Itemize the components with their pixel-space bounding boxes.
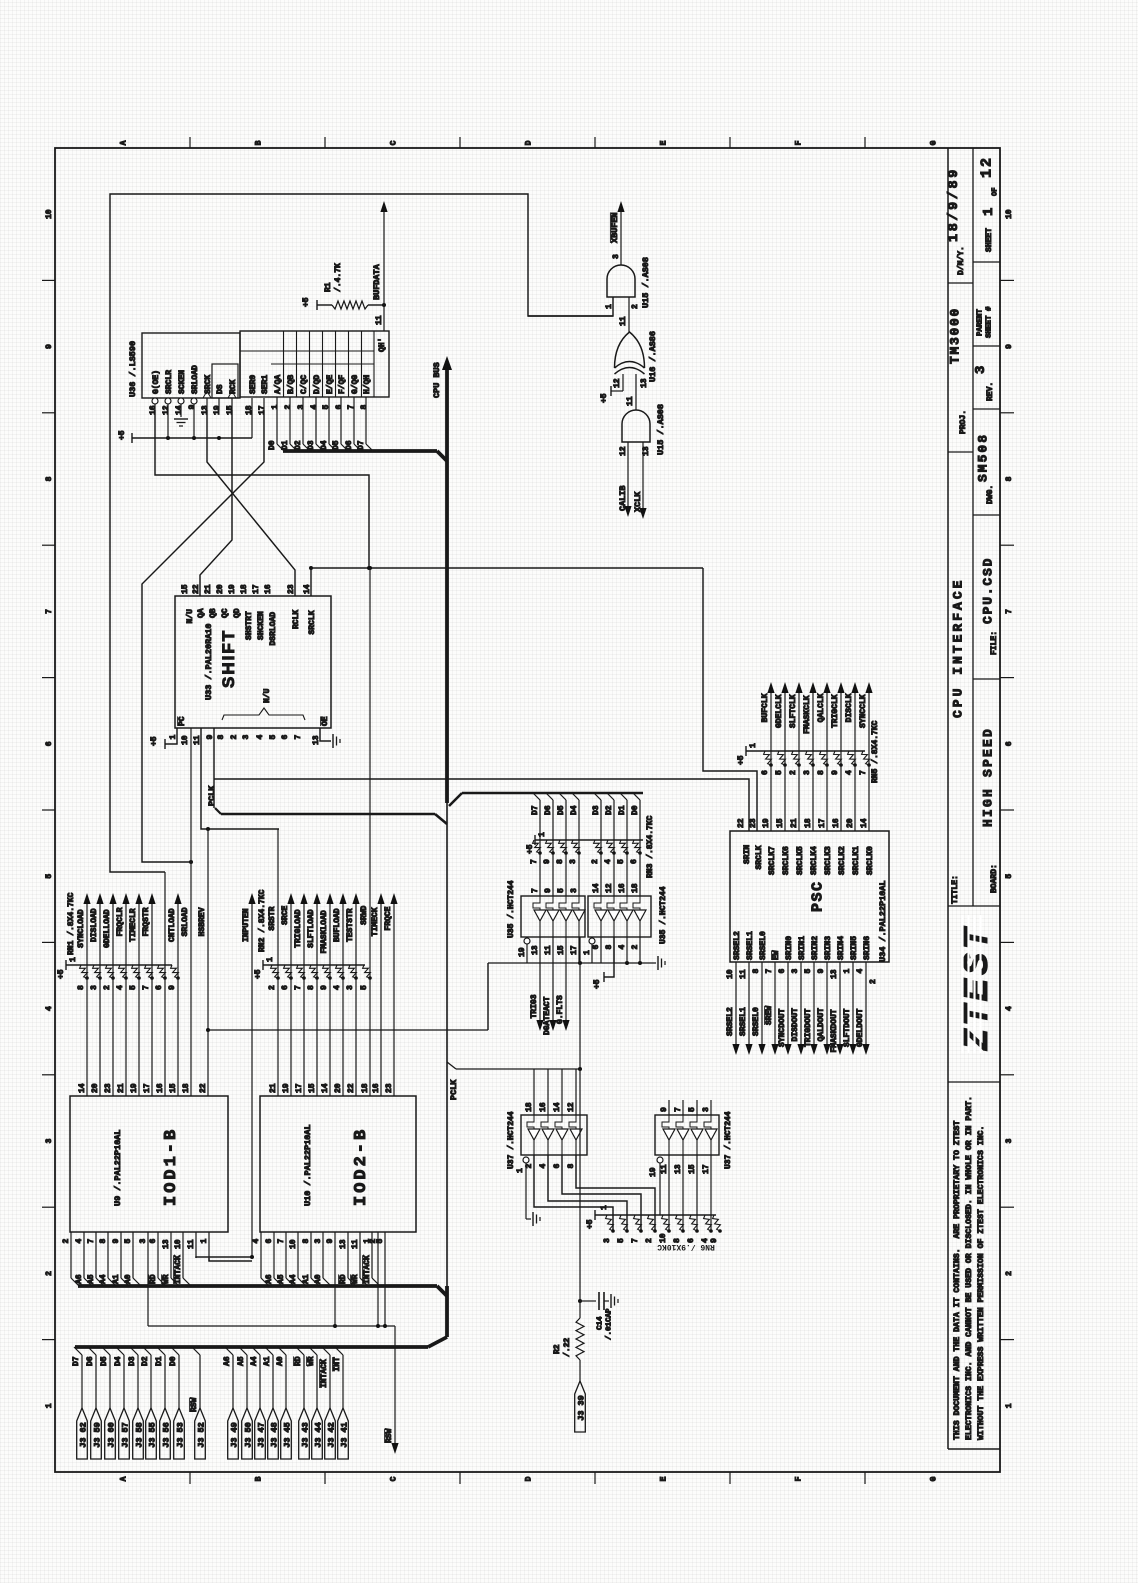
svg-text:SRIN0: SRIN0	[785, 936, 794, 960]
op: AND gate U15b /.AS08	[622, 410, 650, 442]
RN3 squiggles	[533, 840, 642, 855]
svg-text:18: 18	[631, 883, 640, 893]
bus CPU BUS spine	[445, 461, 449, 1337]
svg-text:A0: A0	[314, 1274, 323, 1284]
IC U35 /.HCT244 bank B	[588, 896, 651, 937]
resnet RN1 /.8X4.7KC rail	[57, 957, 172, 979]
svg-text:16: 16	[372, 1083, 381, 1093]
svg-text:D4: D4	[320, 440, 329, 450]
svg-text:RD: RD	[294, 1356, 303, 1366]
svg-text:INPUTEN: INPUTEN	[242, 908, 251, 942]
wire U36 pin stubs	[155, 398, 264, 410]
svg-text:DISCLK: DISCLK	[845, 693, 854, 722]
IOD1-B refdes	[113, 1129, 123, 1206]
svg-text:SHEET #: SHEET #	[986, 306, 994, 338]
border frame	[55, 148, 1000, 1472]
IOD1-B top pin numbers	[78, 1083, 208, 1093]
svg-text:J3 53: J3 53	[176, 1422, 186, 1448]
svg-text:20: 20	[91, 1083, 100, 1093]
svg-text:A5: A5	[87, 1274, 96, 1284]
title cell date	[947, 167, 966, 275]
svg-text:N/U: N/U	[186, 609, 195, 624]
svg-text:8: 8	[567, 1164, 576, 1169]
wire RCK to SHIFT QA	[200, 410, 232, 596]
svg-text:SRIN5: SRIN5	[850, 936, 859, 960]
svg-text:A6: A6	[223, 1356, 232, 1366]
svg-text:SYNCLOAD: SYNCLOAD	[77, 909, 86, 948]
svg-text:A: A	[119, 1476, 128, 1481]
svg-text:E/QE: E/QE	[326, 375, 335, 394]
svg-text:20: 20	[334, 1083, 343, 1093]
svg-text:14: 14	[860, 818, 869, 828]
svg-text:J3 43: J3 43	[301, 1422, 311, 1448]
net arrows PSC outputs	[732, 1044, 869, 1055]
svg-text:18: 18	[361, 1083, 370, 1093]
svg-text:D2: D2	[294, 440, 303, 450]
svg-text:3: 3	[569, 859, 578, 864]
svg-text:1: 1	[69, 957, 78, 962]
RN5 label	[871, 720, 880, 783]
svg-text:RN1 /.8X4.7KC: RN1 /.8X4.7KC	[67, 892, 76, 955]
svg-text:HIGH SPEED: HIGH SPEED	[981, 727, 996, 827]
svg-text:WITHOUT THE EXPRESS WRITTEN PE: WITHOUT THE EXPRESS WRITTEN PERMISSION O…	[977, 1126, 986, 1440]
connector J3 58 (D3)	[128, 1347, 145, 1459]
svg-text:22: 22	[199, 1083, 208, 1093]
svg-text:10: 10	[659, 1233, 668, 1243]
svg-text:5: 5	[804, 969, 813, 974]
wires IOD1 control signals	[87, 872, 178, 1096]
net arrow XCLK	[633, 442, 647, 519]
IC U34 PSC /.PAL22P10AL	[730, 831, 889, 962]
wire PCLK horizontal to SRIN	[214, 779, 749, 831]
svg-text:10: 10	[45, 209, 54, 219]
net arrow CALIB	[618, 442, 632, 517]
net arrow TRIG3	[530, 963, 544, 1031]
svg-text:J3 41: J3 41	[340, 1422, 350, 1448]
svg-text:6: 6	[281, 735, 290, 740]
wire IOD2 pins to RSW	[376, 1258, 387, 1328]
svg-text:6: 6	[592, 945, 601, 950]
op: XOR gate U16 /.AS86	[615, 332, 645, 374]
svg-text:6: 6	[778, 969, 787, 974]
svg-text:PSC: PSC	[809, 880, 826, 912]
U37 B output pin numbers	[660, 1164, 711, 1174]
RN3 label	[646, 815, 655, 878]
svg-text:QB: QB	[209, 608, 218, 618]
wire R1 to QH pin 11	[368, 303, 386, 331]
svg-text:INT: INT	[333, 1357, 342, 1372]
svg-text:U15 /.AS08: U15 /.AS08	[641, 257, 651, 308]
svg-text:13: 13	[162, 1239, 171, 1249]
svg-text:SRCLK3: SRCLK3	[824, 846, 833, 875]
svg-text:15: 15	[776, 818, 785, 828]
svg-text:D4: D4	[570, 805, 579, 815]
svg-text:U37 /.HCT244: U37 /.HCT244	[724, 1111, 733, 1169]
svg-text:U16 /.AS86: U16 /.AS86	[648, 331, 658, 382]
svg-text:9: 9	[817, 969, 826, 974]
svg-text:1: 1	[271, 405, 280, 410]
RN5 pin numbers	[761, 770, 868, 775]
svg-text:12: 12	[613, 378, 622, 388]
svg-text:CALIB: CALIB	[618, 485, 628, 511]
svg-text:6: 6	[45, 741, 54, 746]
svg-text:U36 /.LS590: U36 /.LS590	[128, 341, 138, 397]
svg-text:19: 19	[130, 1083, 139, 1093]
svg-text:23: 23	[385, 1083, 394, 1093]
svg-text:GDELDOUT: GDELDOUT	[856, 1008, 865, 1047]
svg-text:D7: D7	[357, 440, 366, 450]
svg-text:15: 15	[557, 945, 566, 955]
wire RCLK net	[311, 566, 757, 831]
IC U10 IOD2-B	[260, 1096, 416, 1232]
svg-text:19: 19	[282, 1083, 291, 1093]
svg-text:H/QH: H/QH	[363, 375, 372, 394]
svg-text:C14: C14	[597, 1316, 605, 1330]
svg-text:WR: WR	[307, 1356, 316, 1366]
resnet RN3 /.8X4.7KC rail	[526, 832, 643, 854]
U37 A input pin numbers	[525, 1102, 576, 1112]
svg-text:17: 17	[252, 584, 261, 594]
svg-text:+5: +5	[150, 736, 159, 746]
svg-text:U9 /.PAL22P10AL: U9 /.PAL22P10AL	[113, 1129, 123, 1206]
svg-text:13: 13	[674, 1164, 683, 1174]
svg-text:17: 17	[702, 1164, 711, 1174]
svg-text:FMASKCLK: FMASKCLK	[803, 695, 812, 734]
svg-text:14: 14	[592, 883, 601, 893]
title block grid	[948, 148, 1000, 1449]
svg-text:C: C	[389, 1476, 398, 1481]
node SRCLK junction	[309, 566, 313, 570]
svg-text:+5: +5	[526, 844, 535, 854]
svg-text:16: 16	[832, 818, 841, 828]
svg-text:8: 8	[360, 405, 369, 410]
svg-text:J3 57: J3 57	[121, 1422, 131, 1448]
svg-text:PCLK: PCLK	[207, 785, 217, 806]
svg-text:SRIN2: SRIN2	[811, 936, 820, 960]
svg-text:12: 12	[567, 1102, 576, 1112]
svg-text:4: 4	[45, 1006, 54, 1011]
svg-text:11: 11	[351, 1239, 360, 1249]
svg-text:15: 15	[181, 584, 190, 594]
svg-text:U33 /.PAL20RA10: U33 /.PAL20RA10	[204, 623, 214, 700]
svg-text:SRSTR: SRSTR	[268, 906, 277, 930]
wires IOD outputs to bus	[71, 1258, 380, 1286]
svg-text:D2: D2	[605, 805, 614, 815]
svg-text:10: 10	[289, 1239, 298, 1249]
U35 bank A OE bubble	[518, 938, 530, 963]
svg-text:G.FLTS: G.FLTS	[556, 995, 565, 1024]
wire SER1 cross diag	[142, 410, 264, 864]
svg-text:A1: A1	[302, 1274, 311, 1284]
svg-text:A: A	[119, 140, 128, 145]
svg-text:17: 17	[143, 1083, 152, 1093]
svg-text:7: 7	[859, 770, 868, 775]
svg-text:17: 17	[570, 945, 579, 955]
svg-text:23: 23	[749, 818, 758, 828]
wire U15a input2	[628, 297, 630, 332]
svg-text:OE: OE	[321, 716, 330, 726]
svg-text:QC: QC	[221, 608, 230, 618]
svg-text:13: 13	[640, 378, 649, 388]
svg-text:1: 1	[45, 1403, 54, 1408]
U35 output pin numbers	[531, 945, 640, 956]
svg-text:23: 23	[104, 1083, 113, 1093]
svg-text:U35 /.HCT244: U35 /.HCT244	[659, 886, 668, 944]
U33 bottom pin numbers	[169, 735, 321, 746]
wire U36 pin18 SER0 to +5	[251, 410, 253, 438]
bus U-turn to connectors	[75, 1337, 447, 1347]
svg-text:7: 7	[294, 735, 303, 740]
svg-text:11: 11	[544, 945, 553, 955]
connector J3 50 (A5)	[237, 1347, 254, 1459]
svg-text:WR: WR	[351, 1274, 360, 1284]
svg-text:CPU INTERFACE: CPU INTERFACE	[951, 578, 966, 718]
svg-text:A5: A5	[237, 1356, 246, 1366]
svg-text:QH': QH'	[378, 338, 387, 352]
wire +5 to R1	[302, 297, 332, 310]
svg-text:SCKEN: SCKEN	[178, 370, 187, 394]
svg-text:11: 11	[626, 396, 635, 406]
svg-text:SRCE: SRCE	[281, 905, 290, 924]
svg-text:TM3000: TM3000	[948, 307, 963, 364]
svg-text:J3 45: J3 45	[283, 1422, 293, 1448]
svg-text:8: 8	[45, 476, 54, 481]
svg-text:11: 11	[619, 316, 628, 326]
svg-text:12: 12	[619, 446, 628, 456]
svg-text:C: C	[389, 140, 398, 145]
svg-text:SRCLK: SRCLK	[755, 845, 764, 869]
wire +5 to U33 pin1	[150, 728, 177, 749]
svg-text:5: 5	[775, 770, 784, 775]
svg-text:A/QA: A/QA	[274, 375, 283, 394]
svg-text:1: 1	[266, 957, 275, 962]
svg-text:7: 7	[277, 1239, 286, 1244]
svg-text:D3: D3	[307, 440, 316, 450]
svg-text:5: 5	[124, 1239, 133, 1244]
svg-text:3: 3	[139, 1239, 148, 1244]
title cell dwg	[976, 433, 995, 504]
svg-text:SRCLK1: SRCLK1	[852, 846, 861, 875]
svg-text:8: 8	[605, 945, 614, 950]
svg-text:1: 1	[516, 1168, 525, 1173]
svg-text:D: D	[524, 140, 533, 145]
svg-text:EW: EW	[772, 950, 781, 960]
net arrow RSW	[385, 1326, 399, 1454]
svg-text:+5: +5	[600, 393, 609, 403]
svg-text:21: 21	[790, 818, 799, 828]
svg-text:3: 3	[1005, 1138, 1014, 1143]
svg-text:SRCLK: SRCLK	[308, 610, 317, 634]
svg-text:SRIN1: SRIN1	[798, 936, 807, 960]
svg-text:SER1: SER1	[261, 375, 270, 394]
svg-text:9: 9	[831, 770, 840, 775]
svg-text:IOD1-B: IOD1-B	[162, 1127, 181, 1206]
wire U35 rail to HSBREV	[488, 963, 527, 1030]
svg-text:9: 9	[45, 344, 54, 349]
svg-text:SRWD: SRWD	[360, 905, 369, 924]
svg-text:WR: WR	[162, 1274, 171, 1284]
svg-text:3: 3	[45, 1138, 54, 1143]
svg-text:RN5 /.8X4.7KC: RN5 /.8X4.7KC	[871, 720, 880, 783]
svg-text:15: 15	[226, 405, 235, 415]
svg-text:2: 2	[284, 405, 293, 410]
svg-text:14: 14	[78, 1083, 87, 1093]
wire U36 pin16 route	[155, 410, 369, 568]
svg-text:D1: D1	[155, 1356, 164, 1366]
svg-text:INTACK: INTACK	[320, 1359, 329, 1388]
resnet RN5 /.8X4.7KC rail	[737, 743, 865, 765]
svg-text:1: 1	[981, 208, 997, 216]
svg-text:FRQCLR: FRQCLR	[116, 907, 125, 936]
svg-text:RSW: RSW	[190, 1397, 199, 1412]
svg-text:12: 12	[978, 156, 995, 178]
U34 refdes	[878, 880, 888, 962]
R1 value label	[324, 263, 343, 292]
bus IOD merge	[437, 1286, 447, 1296]
svg-text:HSBREV: HSBREV	[198, 907, 207, 936]
svg-text:D5: D5	[332, 440, 341, 450]
svg-text:TIMECK: TIMECK	[371, 907, 380, 936]
svg-text:RD: RD	[339, 1274, 348, 1284]
svg-text:2: 2	[1005, 1271, 1014, 1276]
svg-text:SLFTCLK: SLFTCLK	[789, 694, 798, 728]
svg-text:SER0: SER0	[249, 375, 258, 394]
wires PSC clock outputs	[771, 685, 869, 831]
svg-text:A4: A4	[250, 1356, 259, 1366]
svg-text:9: 9	[326, 1239, 335, 1244]
svg-text:U34 /.PAL22P10AL: U34 /.PAL22P10AL	[878, 880, 888, 962]
svg-text:2: 2	[645, 1238, 654, 1243]
svg-text:FRQSTR: FRQSTR	[142, 907, 151, 936]
svg-text:1: 1	[583, 950, 592, 955]
wire +5 rail U36	[118, 430, 252, 443]
svg-text:22: 22	[737, 818, 746, 828]
U33 top pin labels	[186, 608, 317, 645]
U33 top pin numbers	[181, 584, 312, 594]
IOD2-B refdes	[303, 1124, 313, 1206]
svg-text:3: 3	[242, 735, 251, 740]
wire HSBREV enable link	[208, 1029, 488, 1031]
IOD1-B name	[162, 1127, 181, 1206]
svg-text:11: 11	[660, 1164, 669, 1174]
C14 labels	[597, 1308, 614, 1340]
svg-text:U10 /.PAL22P10AL: U10 /.PAL22P10AL	[303, 1124, 313, 1206]
svg-text:DISDOUT: DISDOUT	[791, 1008, 800, 1042]
wire loop from gate input	[110, 194, 613, 872]
svg-text:11: 11	[739, 969, 748, 979]
connector J3 44 (WR)	[307, 1347, 324, 1459]
svg-text:7: 7	[631, 1238, 640, 1243]
wires PSC outputs down	[736, 962, 866, 1052]
svg-text:5: 5	[617, 859, 626, 864]
svg-text:6: 6	[553, 1164, 562, 1169]
svg-text:REV.: REV.	[986, 382, 995, 401]
label PCLK upper	[207, 785, 217, 806]
wire PCLK to R2	[578, 1069, 582, 1303]
svg-text:SRSEL2: SRSEL2	[726, 1007, 735, 1036]
svg-text:8: 8	[217, 735, 226, 740]
svg-text:6: 6	[265, 1239, 274, 1244]
svg-text:13: 13	[201, 405, 210, 415]
resistor R1 /.4.7K	[332, 301, 368, 309]
wire SRCK cross diag	[207, 410, 295, 596]
svg-text:4: 4	[618, 945, 627, 950]
connector J3 47 (A4)	[250, 1347, 267, 1459]
svg-text:12: 12	[605, 883, 614, 893]
wire U33 pin13 to ground	[320, 728, 340, 748]
svg-text:D0: D0	[268, 440, 277, 450]
svg-text:/.4.7K: /.4.7K	[334, 263, 343, 292]
svg-text:7: 7	[531, 888, 540, 893]
labels D0-D7	[268, 440, 366, 450]
wires IOD2 control signals	[278, 829, 394, 1096]
connector J3 55 (D2)	[141, 1347, 158, 1459]
ground U36 pin14	[174, 410, 188, 426]
net arrow BUFDATA	[372, 201, 388, 305]
net arrow XBUFEN	[610, 201, 625, 265]
svg-text:QALDOUT: QALDOUT	[817, 1008, 826, 1042]
svg-text:CNTLOAD: CNTLOAD	[168, 908, 177, 942]
svg-text:ELECTRONICS INC. AND CANNOT BE: ELECTRONICS INC. AND CANNOT BE USED OR D…	[965, 1096, 974, 1440]
svg-text:1: 1	[600, 1205, 609, 1210]
svg-text:5: 5	[269, 735, 278, 740]
RN2 pin numbers	[268, 985, 369, 990]
svg-text:SRSEL0: SRSEL0	[752, 1007, 761, 1036]
wire U15a input1	[528, 297, 613, 316]
svg-text:DWG.: DWG.	[986, 485, 995, 504]
svg-text:7: 7	[1005, 609, 1014, 614]
svg-text:SRIN3: SRIN3	[824, 936, 833, 960]
wires IOD bottom stubs	[71, 1232, 385, 1258]
svg-text:2: 2	[62, 1239, 71, 1244]
wire IOD1 pin3 RSW	[148, 1258, 395, 1328]
U34 bottom pin labels	[733, 931, 872, 960]
svg-text:SM508: SM508	[976, 433, 991, 482]
svg-text:PC: PC	[178, 716, 187, 726]
svg-text:4: 4	[845, 770, 854, 775]
svg-text:4: 4	[1005, 1006, 1014, 1011]
svg-text:A4: A4	[289, 1274, 298, 1284]
resnet RN2 /.8X4.7KC rail	[254, 957, 365, 979]
svg-text:DGATEACT: DGATEACT	[543, 996, 552, 1035]
bus CPU BUS arrow	[442, 356, 452, 461]
svg-text:16: 16	[618, 883, 627, 893]
svg-text:1: 1	[200, 1239, 209, 1244]
svg-text:6: 6	[149, 1239, 158, 1244]
svg-text:GDELLOAD: GDELLOAD	[103, 909, 112, 948]
svg-text:4: 4	[604, 859, 613, 864]
svg-text:D1: D1	[281, 440, 290, 450]
svg-text:4: 4	[75, 1239, 84, 1244]
svg-text:3: 3	[314, 1239, 323, 1244]
connector J3 60 (D5)	[100, 1347, 117, 1459]
U33 OE label	[321, 716, 330, 726]
title cell sheet	[978, 156, 999, 252]
svg-text:SRCLK7: SRCLK7	[768, 846, 777, 875]
svg-text:XBUFEN: XBUFEN	[610, 212, 620, 243]
svg-text:6: 6	[1005, 741, 1014, 746]
IOD1-B bottom pin numbers	[62, 1239, 209, 1250]
svg-text:16: 16	[264, 584, 273, 594]
svg-text:18: 18	[804, 818, 813, 828]
svg-text:F: F	[794, 140, 803, 145]
svg-text:19: 19	[649, 1167, 658, 1177]
capacitor C14 /.01CAP	[580, 1292, 618, 1310]
U15b pin numbers	[619, 396, 651, 456]
wire +5 to U16 pin12	[600, 374, 623, 403]
svg-text:7: 7	[294, 985, 303, 990]
IC U9 IOD1-B	[70, 1096, 228, 1232]
